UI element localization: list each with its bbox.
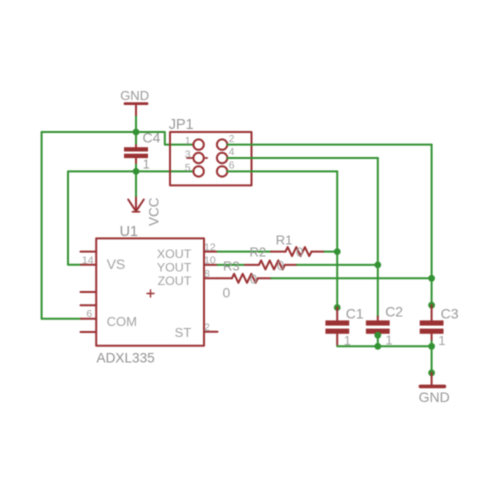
wire B to JP1 pin 5	[136, 170, 193, 172]
svg-text:14: 14	[82, 254, 94, 266]
svg-text:XOUT: XOUT	[157, 247, 192, 261]
capacitor C4	[124, 129, 161, 171]
svg-text:GND: GND	[419, 389, 450, 405]
svg-text:ZOUT: ZOUT	[158, 274, 192, 288]
wire JP1 pin 6 to inner rail	[227, 170, 337, 172]
svg-text:2: 2	[204, 321, 210, 333]
wire C3 node down	[431, 278, 433, 305]
wire JP1 pin 2 to right rail	[227, 144, 431, 146]
svg-text:0: 0	[250, 271, 257, 286]
wire R2 to C2 node	[297, 264, 378, 266]
svg-text:C3: C3	[441, 305, 459, 321]
svg-text:JP1: JP1	[169, 117, 194, 133]
wire right rail down to R3 node	[431, 145, 433, 279]
wire middle rail down to R2 node	[377, 158, 379, 265]
U1 pin 14 stub (VS)	[81, 264, 96, 266]
JP1 pin 3 pad	[187, 153, 207, 163]
svg-text:10: 10	[204, 254, 216, 266]
svg-text:4: 4	[229, 146, 235, 158]
U1 pin 2 stub (ST)	[204, 331, 218, 333]
svg-text:1: 1	[185, 135, 191, 147]
U1 pin 8 stub (ZOUT)	[204, 277, 218, 279]
svg-text:C1: C1	[346, 305, 364, 321]
U1 pin stub (NC, left row 1)	[81, 251, 97, 253]
JP1 pin 4 pad	[217, 153, 227, 163]
JP1 pin 5 pad	[193, 166, 203, 176]
wire C3 to bottom rail	[431, 341, 433, 346]
junction below C2	[374, 332, 381, 339]
svg-text:6: 6	[229, 160, 235, 172]
junction C2 bottom rail	[374, 343, 381, 350]
wire left rail to COM pin 6	[42, 318, 81, 320]
wire C2 node down	[377, 265, 379, 317]
junction R2/C2	[374, 262, 381, 269]
wire B left and down to VS pin 14	[68, 171, 136, 264]
supply symbol VCC	[128, 171, 161, 226]
JP1 pin 6 pad	[217, 166, 227, 176]
svg-text:R1: R1	[276, 233, 293, 248]
U1 polarity mark +	[147, 290, 154, 297]
wire R1 to C1 node	[325, 251, 338, 253]
U1 pin 10 stub (YOUT)	[204, 264, 218, 266]
svg-text:12: 12	[204, 242, 216, 254]
junction B (VCC node)	[133, 168, 140, 175]
wire inner rail down to R1 node	[336, 171, 338, 251]
junction above C1	[334, 304, 341, 311]
svg-text:C4: C4	[143, 129, 161, 145]
svg-text:3: 3	[185, 149, 191, 161]
svg-text:GND: GND	[120, 88, 149, 103]
svg-text:R3: R3	[223, 259, 240, 274]
IC U1	[96, 224, 204, 365]
svg-text:VS: VS	[107, 256, 126, 272]
svg-text:COM: COM	[107, 314, 137, 329]
wire A to left rail	[42, 131, 136, 133]
ground symbol GND (bottom)	[419, 373, 450, 405]
svg-text:0: 0	[296, 245, 303, 260]
U1 pin stub (NC, left row 6)	[81, 331, 97, 333]
capacitor C1	[325, 305, 364, 348]
wire down to bottom GND	[431, 346, 433, 373]
wire left rail down	[41, 132, 43, 319]
wire C1 node down	[336, 252, 338, 308]
wire A to JP1 pin 1	[136, 132, 193, 145]
wire XOUT to R1	[218, 251, 272, 253]
capacitor C2	[366, 303, 403, 347]
svg-text:VCC: VCC	[147, 197, 162, 226]
wire bottom rail	[337, 345, 431, 347]
svg-text:2: 2	[229, 133, 235, 145]
junction above C3	[428, 302, 435, 309]
svg-text:1: 1	[143, 157, 150, 171]
resistor R2	[245, 244, 297, 273]
svg-text:5: 5	[185, 162, 191, 174]
U1 pin stub (NC, left row 4)	[81, 304, 97, 306]
junction R1/C1	[334, 248, 341, 255]
svg-text:YOUT: YOUT	[157, 260, 192, 274]
wire YOUT to R2	[218, 264, 246, 266]
junction A	[133, 129, 140, 136]
U1 pin stub (NC, left row 3)	[81, 291, 97, 293]
svg-text:C2: C2	[385, 303, 403, 319]
connector JP1	[169, 117, 252, 186]
junction R3/C3	[428, 275, 435, 282]
svg-text:8: 8	[204, 268, 210, 280]
svg-text:ADXL335: ADXL335	[97, 351, 155, 366]
svg-text:U1: U1	[120, 224, 138, 240]
U1 pin 6 stub (COM)	[81, 318, 96, 320]
ground symbol GND (top)	[120, 88, 149, 117]
svg-text:0: 0	[277, 258, 284, 273]
svg-text:R2: R2	[250, 244, 267, 259]
resistor R3	[218, 259, 272, 301]
JP1 pin 1 pad	[193, 139, 203, 149]
wire GND to junction A	[135, 117, 137, 133]
junction C3 bottom rail	[428, 343, 435, 350]
svg-text:0: 0	[223, 285, 231, 301]
svg-text:6: 6	[86, 308, 92, 320]
svg-text:ST: ST	[175, 325, 192, 340]
wire C2 to bottom rail	[377, 335, 379, 346]
capacitor C3	[420, 305, 459, 348]
wire JP1 pin 4 to middle rail	[227, 157, 377, 159]
JP1 pin 2 pad	[217, 139, 227, 149]
svg-text:1: 1	[438, 333, 445, 348]
junction above bottom GND	[428, 369, 435, 376]
wire R3 to C3 node	[271, 277, 431, 279]
U1 pin 12 stub (XOUT)	[204, 251, 218, 253]
resistor R1	[271, 233, 325, 260]
